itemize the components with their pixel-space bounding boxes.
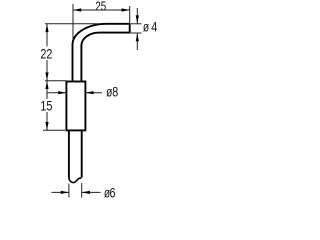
arrow 25 right: [122, 8, 130, 11]
arrow dia6 right (pointing left): [82, 191, 90, 194]
extension line left of dia6: [68, 184, 70, 198]
dim line 15 upper segment: [46, 81, 48, 99]
extension line top of dia4: [131, 23, 142, 25]
svg-text:4: 4: [151, 19, 157, 35]
arrow dia8 left (pointing right at cylinder): [58, 91, 66, 94]
svg-text:22: 22: [40, 46, 52, 62]
arrow 15 up: [45, 81, 48, 89]
dim line 22 upper segment: [46, 24, 48, 47]
dia8 leader right segment: [86, 92, 102, 94]
dia8 leader left segment: [47, 92, 66, 94]
tube inner contour: [81, 33, 129, 82]
extension line bottom of dia4: [131, 32, 142, 34]
svg-text:ø: ø: [106, 84, 112, 100]
extension line bottom of dim 22 / top of dim 15: [45, 80, 66, 82]
arrow 15 down: [45, 122, 48, 130]
dim line dia6 right tail: [82, 191, 101, 193]
cylinder body o8: [66, 82, 85, 131]
extension line bottom of dim 15: [43, 129, 65, 131]
svg-text:15: 15: [40, 98, 52, 114]
tube right end cap: [129, 23, 131, 34]
arrow 22 up: [45, 24, 48, 32]
extension line left of dim 25 (vertical at x=73): [72, 4, 74, 40]
dim line dia6 left tail: [52, 191, 69, 193]
svg-text:8: 8: [112, 84, 118, 100]
rod o6 left edge: [68, 130, 70, 177]
arrow dia4 down: [136, 15, 139, 23]
extension line top of dim 22 (horizontal at tube top): [45, 23, 100, 25]
dim line 22 lower segment: [46, 60, 48, 81]
tube outer contour (bent tube, horizontal arm + elbow + vertical arm): [73, 24, 130, 82]
arrow 22 down: [45, 72, 48, 80]
arrow dia8 right (pointing left at cylinder): [85, 91, 93, 94]
arrow 25 left: [73, 8, 81, 11]
extension line right of dia6: [81, 183, 83, 198]
dimension line 25: [73, 9, 130, 11]
svg-text:ø: ø: [143, 19, 149, 35]
arrow dia4 up: [136, 33, 139, 41]
dim line dia4 upper: [136, 8, 138, 24]
rod break wave: [69, 178, 82, 183]
rod o6 right edge: [81, 130, 83, 177]
extension line right of dim 25 (vertical at x=129.7): [129, 6, 131, 23]
svg-text:25: 25: [95, 1, 106, 15]
dim line dia4 lower: [136, 33, 138, 50]
arrow dia6 left (pointing right): [61, 191, 69, 194]
dim line 15 lower segment: [46, 112, 48, 130]
svg-text:6: 6: [110, 185, 116, 200]
